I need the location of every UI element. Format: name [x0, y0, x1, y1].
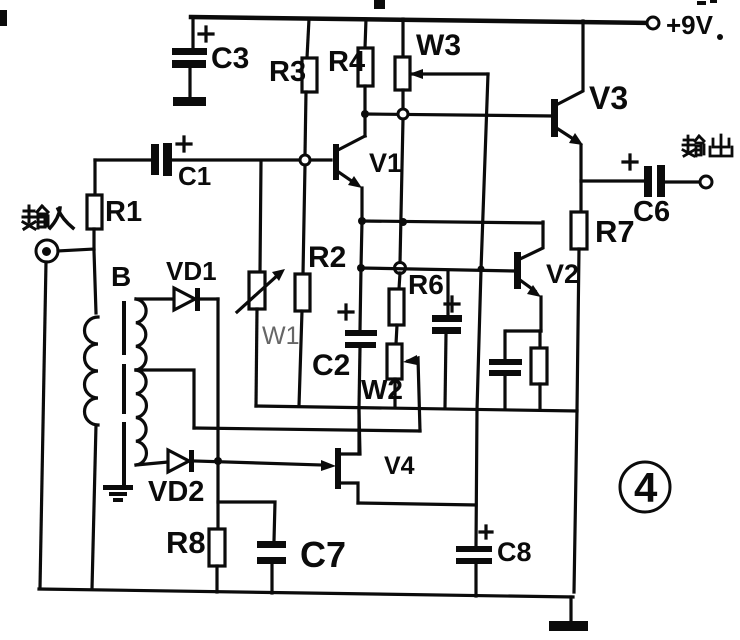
svg-text:+9V: +9V: [666, 10, 714, 40]
svg-text:C6: C6: [633, 196, 670, 228]
svg-text:W3: W3: [416, 29, 461, 62]
svg-text:R4: R4: [328, 46, 365, 78]
svg-text:C8: C8: [497, 537, 532, 567]
svg-text:VD1: VD1: [166, 256, 217, 286]
svg-text:W1: W1: [262, 322, 300, 350]
svg-text:R1: R1: [105, 196, 142, 228]
svg-text:R3: R3: [269, 56, 306, 88]
svg-text:V1: V1: [369, 148, 402, 178]
svg-text:R8: R8: [166, 525, 206, 560]
svg-text:R6: R6: [408, 269, 444, 300]
svg-text:R7: R7: [595, 214, 635, 249]
svg-text:W2: W2: [361, 374, 403, 405]
svg-text:VD2: VD2: [148, 476, 204, 508]
svg-text:V2: V2: [546, 259, 579, 289]
svg-text:C7: C7: [300, 534, 346, 575]
svg-text:V4: V4: [384, 452, 415, 480]
svg-text:4: 4: [634, 464, 658, 511]
svg-text:R2: R2: [308, 241, 346, 274]
svg-text:C1: C1: [178, 161, 211, 191]
svg-text:V3: V3: [589, 80, 628, 116]
svg-text:C2: C2: [312, 349, 350, 382]
svg-text:B: B: [111, 261, 131, 292]
svg-text:C3: C3: [211, 42, 249, 75]
